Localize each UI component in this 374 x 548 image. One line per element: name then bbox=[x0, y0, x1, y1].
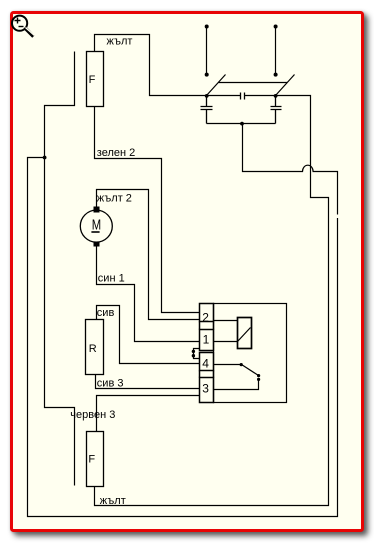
connector X1 pin 2 cell bbox=[200, 304, 214, 322]
capacitor C1 (series) bbox=[241, 93, 245, 100]
relay K1 outline box bbox=[214, 304, 287, 403]
svg-text:жълт: жълт bbox=[100, 495, 126, 507]
terminal dot bottom left bbox=[205, 73, 209, 77]
wire жълт 2: motor M top to connector pin 2 bbox=[97, 190, 200, 320]
connector X1 pin 3 cell bbox=[200, 378, 214, 403]
magnifier handle bbox=[26, 29, 34, 37]
svg-text:3: 3 bbox=[202, 381, 209, 395]
node B (right switch junction) bbox=[274, 94, 278, 98]
wire node B to right rail bbox=[95, 96, 329, 506]
switch S1 fixed terminal (left plug pin) bbox=[206, 27, 208, 75]
plug connector symbol at pin 4 bbox=[194, 349, 200, 359]
wire stub parallel to F1 (spare lead) bbox=[45, 52, 75, 158]
magnifier icon circle bbox=[12, 16, 27, 31]
svg-text:сив 3: сив 3 bbox=[97, 377, 124, 389]
wire жълт: fuse F1 top to switch node A bbox=[95, 35, 207, 96]
fuse F2 bbox=[87, 432, 104, 487]
svg-text:1: 1 bbox=[203, 332, 210, 346]
svg-text:F: F bbox=[88, 454, 95, 466]
plug contact dot lower bbox=[192, 354, 195, 357]
wire зелен 2: fuse F1 bottom to connector pin 2 bbox=[95, 107, 200, 313]
relay coil diagonal bbox=[238, 328, 251, 342]
svg-text:4: 4 bbox=[202, 356, 209, 370]
wire left inner rail down to stub at F2 bbox=[45, 158, 75, 486]
relay contact pivot dot bbox=[240, 363, 243, 366]
motor M bottom terminal bbox=[94, 242, 100, 247]
relay contact blade bbox=[242, 365, 259, 376]
svg-text:жълт 2: жълт 2 bbox=[97, 192, 132, 204]
svg-text:сив: сив bbox=[97, 307, 115, 319]
node A (left switch junction) bbox=[205, 94, 209, 98]
wire pin 1 to relay coil bbox=[214, 341, 238, 343]
wire capacitor bottom bus bbox=[207, 123, 276, 125]
svg-text:зелен 2: зелен 2 bbox=[97, 147, 135, 159]
connector X1 side rails through gaps bbox=[200, 322, 214, 378]
terminal dot top right bbox=[274, 25, 278, 29]
magnifier handle core bbox=[26, 28, 35, 36]
junction C (capacitor bottom) bbox=[240, 122, 244, 126]
terminal dot bottom right bbox=[274, 73, 278, 77]
svg-text:R: R bbox=[89, 343, 97, 355]
wire node A to capacitor C1 bbox=[207, 95, 241, 97]
connector X1 pin 4 cell bbox=[200, 353, 214, 371]
wire син 1: motor M bottom to connector pin 1 bbox=[97, 247, 200, 342]
wire pin 4 to relay contact bbox=[214, 364, 242, 366]
magnifier plus sign bbox=[15, 18, 21, 24]
switch S1 blade bbox=[207, 75, 226, 96]
wire junction C down, hop over rail, to outer right rail and bottom loop bbox=[28, 124, 338, 517]
magnifier minus sign bbox=[19, 26, 24, 28]
wire relay contact to pin 3 bbox=[214, 380, 259, 390]
motor M bbox=[80, 210, 112, 242]
capacitor C2 (left shunt) bbox=[201, 96, 213, 124]
plug contact dot upper bbox=[192, 350, 195, 353]
svg-text:жълт: жълт bbox=[107, 36, 133, 48]
terminal dot top left bbox=[205, 25, 209, 29]
resistor R bbox=[86, 320, 104, 375]
capacitor C3 (right shunt) bbox=[271, 96, 282, 124]
svg-text:M: M bbox=[92, 216, 101, 233]
wire сив 3: resistor R bottom to connector pin 3 bbox=[96, 375, 200, 389]
svg-text:син 1: син 1 bbox=[98, 272, 125, 284]
switch gang linkage bbox=[219, 82, 288, 84]
motor M underline bbox=[91, 231, 99, 233]
motor M top terminal bbox=[94, 207, 100, 213]
connector X1 pin 1 cell bbox=[200, 330, 214, 351]
wire червен 3: fuse F2 top to connector pin 3 bbox=[97, 396, 200, 432]
switch S2 blade bbox=[276, 75, 295, 96]
relay contact dot upper bbox=[257, 374, 260, 377]
wire capacitor C1 to node B bbox=[245, 95, 276, 97]
relay K1 coil bbox=[238, 318, 252, 349]
svg-text:червен 3: червен 3 bbox=[70, 409, 115, 421]
switch S2 fixed terminal (right plug pin) bbox=[275, 27, 277, 75]
junction D (left rail tee) bbox=[43, 156, 47, 160]
svg-text:2: 2 bbox=[202, 310, 209, 324]
wire pin 2 to relay coil bbox=[214, 320, 238, 322]
relay contact dot lower bbox=[257, 378, 260, 381]
svg-text:F: F bbox=[89, 74, 96, 86]
wire сив: resistor R top to connector pin 4 bbox=[97, 306, 200, 364]
fuse F1 bbox=[87, 52, 104, 107]
